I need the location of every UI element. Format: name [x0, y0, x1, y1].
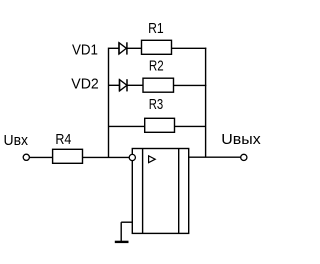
- op-amp amplification triangle symbol: [149, 156, 156, 163]
- wire R1 to right bus: [172, 47, 207, 49]
- wire R3 to right bus: [175, 125, 206, 127]
- wire R2 to right bus: [174, 84, 207, 86]
- diode VD2: [120, 79, 128, 91]
- resistor R2: [143, 78, 174, 92]
- output terminal circle Uвых: [241, 154, 247, 160]
- resistor R3: [145, 118, 175, 132]
- wire input circle to R4: [29, 156, 52, 158]
- ground symbol bar: [115, 241, 129, 243]
- svg-text:R2: R2: [149, 59, 164, 75]
- resistor R4: [53, 149, 83, 163]
- wire VD1 cathode to R1: [127, 47, 142, 49]
- wire row2 bus to VD2 anode: [109, 84, 120, 86]
- resistor R1: [142, 40, 172, 54]
- wire row3 bus to R3: [109, 125, 145, 127]
- svg-text:R3: R3: [149, 97, 164, 113]
- left bus vertical wire: [108, 48, 110, 158]
- op-amp DA1 body: [132, 149, 188, 234]
- wire VD2 cathode to R2: [127, 84, 143, 86]
- op-amp inverting input circle: [129, 154, 135, 160]
- diode VD1: [119, 42, 127, 54]
- svg-text:Uвых: Uвых: [221, 132, 261, 148]
- input terminal circle Uвх: [23, 154, 29, 160]
- svg-text:R4: R4: [55, 132, 71, 148]
- output wire op-amp to output terminal: [189, 156, 241, 158]
- wire R4 to op-amp inverting input: [83, 156, 130, 158]
- wire non-inverting input to ground stem: [121, 221, 132, 223]
- svg-text:Uвх: Uвх: [4, 133, 29, 149]
- right bus vertical wire: [205, 48, 207, 158]
- ground stem wire: [120, 222, 122, 241]
- wire row1 bus to VD1 anode: [109, 47, 120, 49]
- svg-text:VD1: VD1: [72, 42, 98, 58]
- svg-text:VD2: VD2: [71, 77, 99, 93]
- svg-text:R1: R1: [148, 21, 164, 37]
